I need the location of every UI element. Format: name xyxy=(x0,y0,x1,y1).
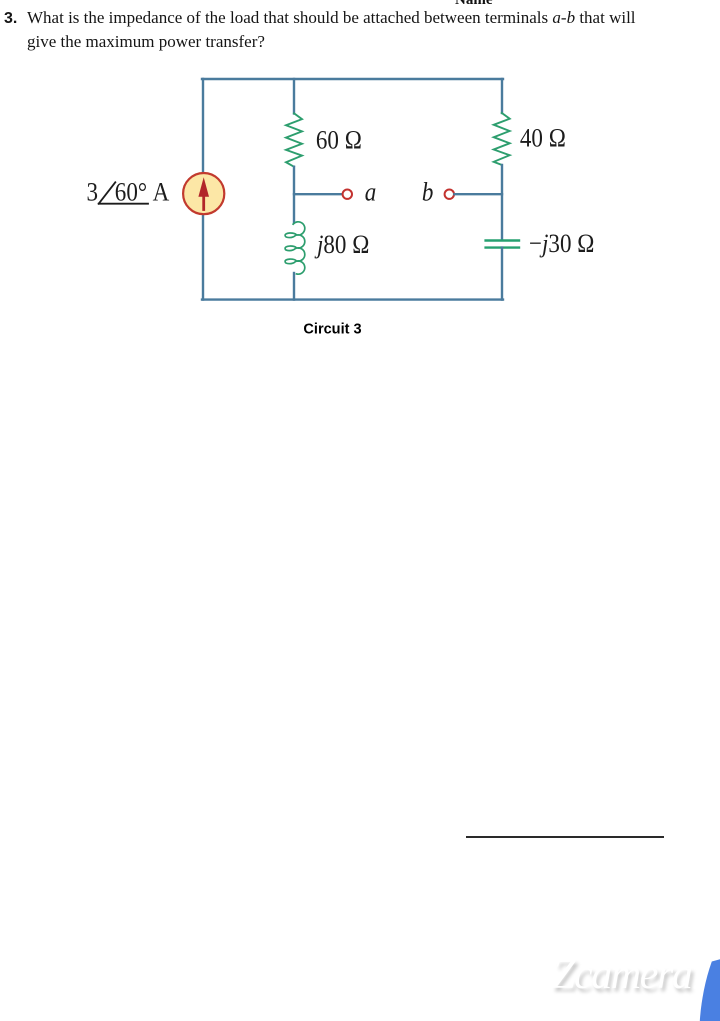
wire right vertical below capacitor xyxy=(501,248,503,300)
terminal a xyxy=(343,190,352,199)
wire top horizontal xyxy=(202,78,503,80)
svg-text:a: a xyxy=(365,178,377,207)
question text xyxy=(27,6,717,53)
wire right vertical between resistor and capacitor xyxy=(501,165,503,240)
answer blank line xyxy=(466,836,664,838)
terminal b xyxy=(445,190,454,199)
wire node to terminal a xyxy=(294,193,342,195)
wire middle vertical between resistor and node xyxy=(293,167,295,223)
question number 3. xyxy=(4,7,17,31)
blue corner shape xyxy=(690,950,720,1021)
svg-text:−j30 Ω: −j30 Ω xyxy=(529,230,594,259)
wire right vertical above resistor xyxy=(501,79,503,113)
svg-text:A: A xyxy=(153,178,170,207)
svg-text:b: b xyxy=(422,178,434,207)
svg-text:3: 3 xyxy=(87,178,99,207)
wire middle vertical above resistor xyxy=(293,79,295,114)
inductor j80 ohm xyxy=(285,222,305,274)
svg-text:j80 Ω: j80 Ω xyxy=(314,230,369,259)
svg-text:Circuit 3: Circuit 3 xyxy=(303,321,361,337)
wire bottom horizontal xyxy=(202,298,503,300)
svg-text:60 Ω: 60 Ω xyxy=(316,126,362,155)
watermark Zcamera xyxy=(552,954,692,996)
current source I1 xyxy=(183,173,224,214)
svg-text:40 Ω: 40 Ω xyxy=(520,124,566,153)
wire left vertical below source xyxy=(202,214,204,300)
resistor 40 ohm xyxy=(494,113,510,165)
capacitor -j30 ohm xyxy=(486,241,519,248)
clipped header word "Name" xyxy=(455,0,493,8)
current source value label 3 angle 60 A xyxy=(87,178,170,207)
wire middle vertical below inductor xyxy=(293,273,295,300)
svg-text:60°: 60° xyxy=(115,178,147,207)
wire left vertical above source xyxy=(202,79,204,174)
wire terminal b to right branch xyxy=(454,193,502,195)
resistor 60 ohm xyxy=(286,113,302,166)
